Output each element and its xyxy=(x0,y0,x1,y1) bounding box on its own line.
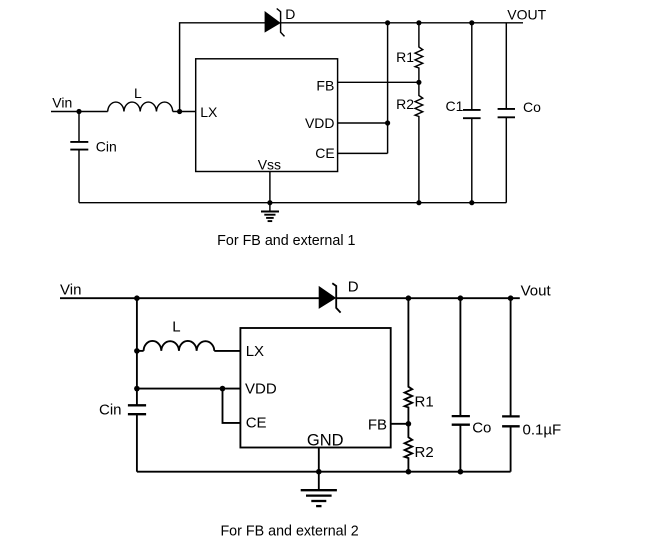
svg-text:R2: R2 xyxy=(396,96,414,112)
capacitor Co upper lead (bottom circuit) xyxy=(459,298,461,416)
wire Vout rail (bottom circuit) xyxy=(336,297,520,299)
capacitor Co (bottom circuit) xyxy=(452,416,470,425)
svg-text:D: D xyxy=(348,279,359,296)
resistor R1 (bottom circuit) xyxy=(405,298,413,424)
wire Vin node to inductor (bottom circuit) xyxy=(137,350,144,352)
wire VOUT rail (top circuit) xyxy=(281,22,523,24)
capacitor Co (top circuit) xyxy=(498,109,515,117)
svg-text:LX: LX xyxy=(246,343,264,360)
svg-text:D: D xyxy=(285,6,295,22)
svg-text:Vin: Vin xyxy=(52,95,72,111)
svg-text:Vout: Vout xyxy=(521,283,552,300)
capacitor Cin lower lead (top circuit) xyxy=(78,150,80,203)
junction Vin/Cin (top circuit) xyxy=(76,109,81,114)
wire Vin input (bottom circuit) xyxy=(60,297,319,299)
junction Vss on ground rail (top circuit) xyxy=(267,200,272,205)
junction divider tap dot (top circuit) xyxy=(416,80,421,85)
capacitor C1 lower lead (top circuit) xyxy=(471,118,473,203)
junction R1 top on Vout rail (bottom circuit) xyxy=(406,295,412,301)
svg-text:VDD: VDD xyxy=(305,115,335,131)
svg-text:Vss: Vss xyxy=(258,157,281,173)
junction divider tap dot (bottom circuit) xyxy=(406,421,412,427)
capacitor Cin (top circuit) xyxy=(70,142,88,150)
svg-text:CE: CE xyxy=(315,145,334,161)
junction Co top on Vout rail (bottom circuit) xyxy=(458,295,464,301)
junction R1 top on VOUT rail (top circuit) xyxy=(416,20,421,25)
inductor L (top circuit) xyxy=(108,102,173,111)
diode D schottky (bottom circuit) xyxy=(319,283,340,312)
svg-text:R1: R1 xyxy=(396,49,414,65)
svg-text:0.1µF: 0.1µF xyxy=(523,422,562,439)
junction R2 bottom on ground rail (bottom circuit) xyxy=(406,469,412,475)
svg-text:R2: R2 xyxy=(415,444,434,461)
capacitor C1 upper lead (top circuit) xyxy=(471,23,473,110)
capacitor Co lower lead (bottom circuit) xyxy=(459,425,461,472)
svg-text:C1: C1 xyxy=(446,98,464,114)
junction GND on ground rail (bottom circuit) xyxy=(316,469,322,475)
svg-text:L: L xyxy=(172,319,180,336)
junction C1 bottom on ground rail (top circuit) xyxy=(469,200,474,205)
junction VDD tap (bottom circuit) xyxy=(134,386,140,392)
junction Co bottom on ground rail (bottom circuit) xyxy=(458,469,464,475)
svg-text:For FB and external 1: For FB and external 1 xyxy=(217,233,355,249)
wire ground rail (top circuit) xyxy=(79,202,506,204)
junction C1 top on VOUT rail (top circuit) xyxy=(469,20,474,25)
junction LX node (top circuit) xyxy=(177,109,182,114)
wire Vin input (top circuit) xyxy=(51,111,108,113)
wire VDD pin (bottom circuit) xyxy=(137,388,241,390)
svg-text:LX: LX xyxy=(200,104,218,120)
svg-text:FB: FB xyxy=(316,77,334,93)
ground symbol (bottom circuit) xyxy=(301,472,337,506)
capacitor C1 (top circuit) xyxy=(463,110,481,118)
resistor R2 (bottom circuit) xyxy=(405,424,413,472)
capacitor C2 0.1uF upper lead (bottom circuit) xyxy=(510,298,512,416)
svg-text:For FB and external 2: For FB and external 2 xyxy=(220,524,358,539)
wire CE branch (bottom circuit) xyxy=(223,389,241,423)
svg-text:VDD: VDD xyxy=(245,380,277,397)
wire LX node to diode anode riser (top circuit) xyxy=(180,23,266,112)
op-amp U1 IC body (top circuit) xyxy=(196,59,338,172)
wire Vin riser down to Cin (bottom circuit) xyxy=(136,298,138,405)
capacitor Cin (bottom circuit) xyxy=(128,405,146,414)
junction CE branch on VDD wire (bottom circuit) xyxy=(220,386,226,392)
diode D schottky (top circuit) xyxy=(265,9,284,37)
svg-text:CE: CE xyxy=(246,415,267,432)
svg-text:GND: GND xyxy=(307,431,344,449)
junction Vin node (bottom circuit) xyxy=(134,295,140,301)
junction inductor tap (bottom circuit) xyxy=(134,348,140,354)
svg-text:Cin: Cin xyxy=(99,402,122,419)
wire ground rail (bottom circuit) xyxy=(137,471,511,473)
capacitor C2 0.1uF (bottom circuit) xyxy=(502,416,520,426)
svg-text:VOUT: VOUT xyxy=(507,7,546,23)
capacitor Co upper lead (top circuit) xyxy=(505,23,507,109)
wire FB pin to divider tap (bottom circuit) xyxy=(391,423,409,425)
junction riser on VOUT rail (top circuit) xyxy=(385,20,390,25)
junction VDD on riser (top circuit) xyxy=(385,120,390,125)
wire VOUT to VDD/CE riser (top circuit) xyxy=(387,23,389,154)
junction 0.1uF top on Vout rail (bottom circuit) xyxy=(508,295,514,301)
wire FB pin to divider tap (top circuit) xyxy=(338,81,419,83)
svg-text:Co: Co xyxy=(523,99,541,115)
svg-text:R1: R1 xyxy=(415,394,434,411)
svg-text:Cin: Cin xyxy=(96,138,117,154)
resistor R2 (top circuit) xyxy=(415,82,423,202)
capacitor Cin upper lead (top circuit) xyxy=(78,112,80,142)
resistor R1 (top circuit) xyxy=(415,23,423,83)
capacitor Cin lower lead (bottom circuit) xyxy=(136,414,138,472)
wire VDD pin (top circuit) xyxy=(338,122,388,124)
junction R2 bottom on ground rail (top circuit) xyxy=(416,200,421,205)
op-amp U2 IC body (bottom circuit) xyxy=(240,328,390,448)
capacitor Co lower lead (top circuit) xyxy=(505,117,507,202)
wire CE pin (top circuit) xyxy=(338,152,388,154)
wire Vss pin to ground rail (top circuit) xyxy=(269,172,271,203)
svg-text:Vin: Vin xyxy=(60,282,81,299)
svg-text:Co: Co xyxy=(472,420,491,437)
wire inductor to LX pin (bottom circuit) xyxy=(214,350,240,352)
svg-text:FB: FB xyxy=(368,416,387,433)
ground symbol (top circuit) xyxy=(261,203,279,221)
capacitor C2 lower lead (bottom circuit) xyxy=(510,426,512,471)
wire GND pin to ground rail (bottom circuit) xyxy=(318,448,320,472)
wire inductor to LX pin (top circuit) xyxy=(173,111,196,113)
svg-text:L: L xyxy=(134,85,142,101)
inductor L (bottom circuit) xyxy=(144,341,215,351)
